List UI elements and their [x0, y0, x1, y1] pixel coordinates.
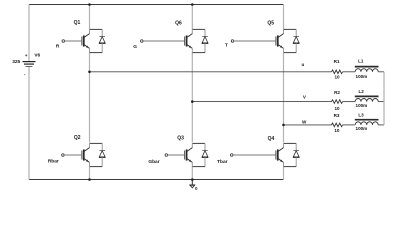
svg-text:L3: L3 [358, 112, 364, 117]
svg-text:R3: R3 [334, 113, 340, 118]
svg-text:Q2: Q2 [74, 135, 81, 141]
svg-text:L2: L2 [359, 89, 365, 94]
svg-text:Q6: Q6 [175, 20, 182, 26]
svg-text:10: 10 [334, 128, 340, 133]
svg-text:325: 325 [12, 59, 20, 65]
svg-text:0: 0 [195, 186, 198, 191]
svg-text:Q4: Q4 [268, 136, 275, 142]
svg-text:W: W [302, 119, 307, 124]
svg-text:100m: 100m [356, 103, 368, 108]
svg-text:100m: 100m [356, 126, 368, 131]
svg-text:R1: R1 [334, 59, 340, 64]
svg-text:G: G [133, 44, 137, 50]
svg-text:T: T [225, 43, 228, 49]
svg-text:100m: 100m [356, 74, 368, 79]
svg-text:R: R [56, 44, 60, 50]
svg-text:Gbar: Gbar [148, 159, 159, 165]
svg-text:+: + [25, 53, 28, 58]
svg-text:Q5: Q5 [267, 20, 274, 26]
svg-text:u: u [301, 62, 304, 67]
svg-text:Q3: Q3 [177, 136, 184, 142]
svg-text:R2: R2 [334, 90, 340, 95]
svg-text:Q1: Q1 [74, 20, 81, 26]
svg-text:V: V [303, 94, 307, 99]
svg-text:10: 10 [334, 75, 340, 80]
svg-text:Tbar: Tbar [217, 159, 228, 165]
svg-text:-: - [24, 73, 26, 78]
svg-text:Rbar: Rbar [48, 158, 59, 164]
svg-text:V6: V6 [34, 52, 40, 58]
svg-text:10: 10 [334, 106, 340, 111]
svg-text:L1: L1 [358, 58, 364, 63]
